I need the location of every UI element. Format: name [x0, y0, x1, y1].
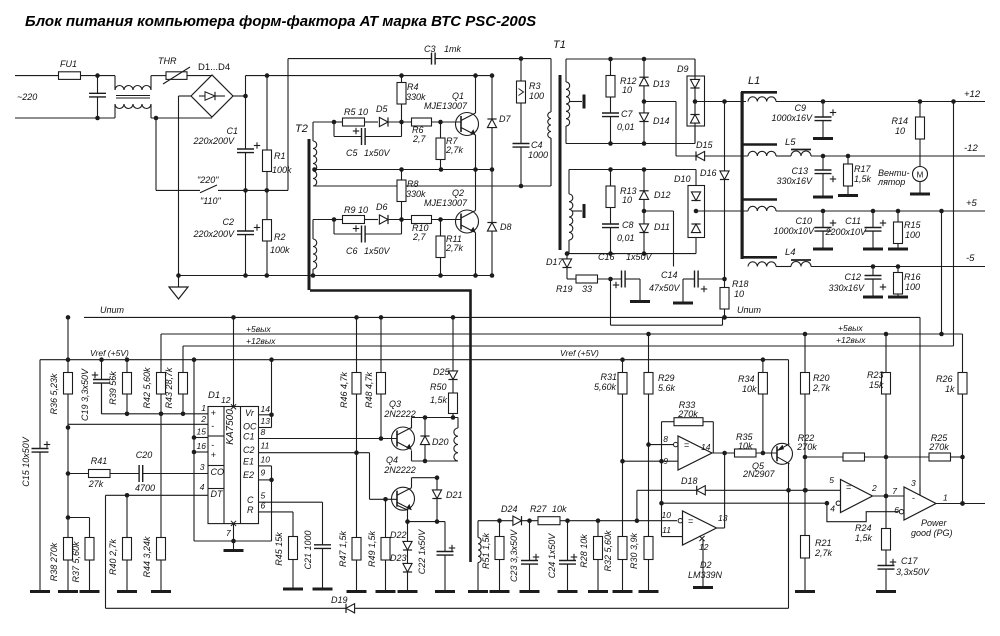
svg-text:D24: D24 [501, 504, 518, 514]
svg-text:R3: R3 [529, 81, 541, 91]
svg-text:1mk: 1mk [444, 44, 462, 54]
svg-text:C24 1x50V: C24 1x50V [547, 533, 557, 579]
svg-text:Vref (+5V): Vref (+5V) [560, 348, 599, 358]
svg-text:D2: D2 [700, 560, 712, 570]
svg-text:Vref (+5V): Vref (+5V) [90, 348, 129, 358]
svg-text:1k: 1k [945, 384, 955, 394]
svg-text:C1: C1 [243, 432, 255, 442]
svg-text:2,7k: 2,7k [445, 145, 464, 155]
svg-text:4: 4 [200, 482, 205, 492]
svg-text:330x16V: 330x16V [828, 283, 865, 293]
svg-text:6: 6 [894, 505, 899, 515]
svg-text:D19: D19 [331, 595, 348, 605]
svg-text:2: 2 [200, 414, 206, 424]
svg-text:LM339N: LM339N [688, 570, 723, 580]
svg-text:R38 270k: R38 270k [49, 542, 59, 581]
svg-text:L5: L5 [785, 137, 796, 148]
svg-text:L4: L4 [785, 247, 796, 258]
svg-text:14: 14 [261, 404, 271, 414]
svg-text:C14: C14 [661, 270, 678, 280]
svg-text:2,7k: 2,7k [812, 383, 831, 393]
svg-text:C6: C6 [346, 246, 358, 256]
svg-text:0,01: 0,01 [617, 233, 635, 243]
svg-text:1,5k: 1,5k [430, 395, 448, 405]
svg-text:10: 10 [662, 510, 672, 520]
svg-text:~220: ~220 [17, 92, 37, 102]
svg-text:Q2: Q2 [452, 188, 464, 198]
svg-text:15: 15 [197, 427, 207, 437]
svg-text:+12: +12 [964, 89, 981, 100]
svg-text:2,7: 2,7 [412, 232, 427, 242]
svg-text:1x50V: 1x50V [626, 252, 653, 262]
svg-text:D21: D21 [446, 490, 463, 500]
svg-text:D11: D11 [654, 222, 670, 232]
svg-text:8: 8 [663, 434, 668, 444]
svg-text:Power: Power [921, 518, 948, 528]
svg-text:=: = [846, 482, 851, 492]
svg-text:R43 28,7k: R43 28,7k [164, 367, 174, 409]
svg-text:C3: C3 [424, 44, 436, 54]
svg-text:D22: D22 [390, 530, 407, 540]
svg-text:C11: C11 [845, 216, 861, 226]
svg-text:100k: 100k [270, 245, 290, 255]
svg-text:C22 1x50V: C22 1x50V [417, 529, 427, 575]
svg-text:270k: 270k [928, 442, 949, 452]
svg-text:5: 5 [829, 475, 834, 485]
svg-text:1000x16V: 1000x16V [771, 113, 813, 123]
svg-text:Блок питания компьютера форм-ф: Блок питания компьютера форм-фактора АТ … [25, 13, 536, 30]
svg-text:R31: R31 [600, 372, 617, 382]
svg-text:лятор: лятор [877, 177, 905, 187]
svg-text:2N2907: 2N2907 [742, 469, 776, 479]
svg-text:R44 3,24k: R44 3,24k [142, 536, 152, 578]
svg-text:R48 4,7k: R48 4,7k [364, 371, 374, 408]
svg-text:10: 10 [734, 289, 744, 299]
svg-text:8: 8 [261, 427, 266, 437]
svg-text:"110": "110" [200, 196, 222, 206]
svg-text:4: 4 [830, 504, 835, 514]
svg-text:33: 33 [582, 284, 592, 294]
svg-text:D7: D7 [499, 114, 511, 124]
svg-text:1x50V: 1x50V [364, 148, 391, 158]
svg-text:1,5k: 1,5k [854, 174, 872, 184]
svg-text:47x50V: 47x50V [649, 283, 681, 293]
svg-text:27k: 27k [88, 479, 104, 489]
svg-text:R45 15k: R45 15k [274, 532, 284, 566]
svg-text:DT: DT [211, 489, 224, 499]
svg-text:R46 4,7k: R46 4,7k [339, 371, 349, 408]
svg-text:R8: R8 [407, 179, 419, 189]
svg-text:5,60k: 5,60k [594, 382, 617, 392]
svg-text:330k: 330k [406, 189, 426, 199]
svg-text:100: 100 [905, 282, 920, 292]
svg-text:C20: C20 [136, 450, 153, 460]
svg-text:R: R [247, 505, 254, 515]
svg-text:+12вых: +12вых [836, 335, 866, 345]
svg-text:D5: D5 [376, 104, 388, 114]
svg-text:2N2222: 2N2222 [383, 409, 416, 419]
svg-text:R47 1,5k: R47 1,5k [338, 530, 348, 567]
svg-text:2,7k: 2,7k [445, 243, 464, 253]
svg-text:9: 9 [261, 468, 266, 478]
svg-text:R15: R15 [904, 220, 922, 230]
svg-text:5.6k: 5.6k [658, 383, 676, 393]
svg-text:C15 10x50V: C15 10x50V [21, 436, 31, 487]
svg-text:10k: 10k [738, 441, 753, 451]
svg-text:R41: R41 [91, 456, 108, 466]
svg-text:100: 100 [905, 230, 920, 240]
svg-text:1000: 1000 [528, 150, 548, 160]
svg-text:100k: 100k [272, 165, 292, 175]
svg-text:+: + [211, 450, 216, 460]
svg-text:R49 1,5k: R49 1,5k [367, 530, 377, 567]
svg-text:R21: R21 [815, 538, 832, 548]
svg-text:Q4: Q4 [386, 455, 398, 465]
svg-text:C5: C5 [346, 148, 358, 158]
svg-text:Vr: Vr [245, 408, 255, 418]
svg-text:R42 5,60k: R42 5,60k [142, 367, 152, 409]
svg-text:+5вых: +5вых [246, 324, 271, 334]
svg-text:R51 1,5k: R51 1,5k [481, 532, 491, 569]
svg-text:-12: -12 [964, 143, 978, 154]
svg-text:R14: R14 [891, 116, 908, 126]
svg-text:11: 11 [662, 525, 671, 535]
svg-text:D8: D8 [500, 222, 512, 232]
svg-text:330x16V: 330x16V [776, 176, 813, 186]
svg-text:330k: 330k [406, 92, 426, 102]
svg-text:D9: D9 [677, 64, 689, 74]
svg-text:1: 1 [201, 403, 206, 413]
svg-text:E1: E1 [243, 457, 254, 467]
svg-text:R23: R23 [867, 370, 884, 380]
svg-text:D10: D10 [674, 174, 691, 184]
svg-text:C16: C16 [598, 252, 615, 262]
svg-text:1: 1 [943, 493, 948, 503]
svg-text:=: = [684, 440, 689, 450]
svg-text:270k: 270k [796, 442, 817, 452]
svg-text:12: 12 [221, 395, 231, 405]
svg-text:D6: D6 [376, 202, 388, 212]
svg-text:220x200V: 220x200V [192, 136, 235, 146]
svg-text:5: 5 [261, 491, 266, 501]
svg-text:2200x10V: 2200x10V [824, 227, 867, 237]
svg-text:good (PG): good (PG) [911, 528, 953, 538]
svg-text:D25: D25 [433, 367, 451, 377]
svg-text:R50: R50 [430, 382, 447, 392]
svg-text:E2: E2 [243, 470, 254, 480]
svg-text:D13: D13 [653, 79, 670, 89]
svg-text:11: 11 [261, 441, 270, 451]
svg-text:12: 12 [699, 542, 709, 552]
svg-text:10k: 10k [742, 384, 757, 394]
svg-text:1x50V: 1x50V [364, 246, 391, 256]
svg-text:R29: R29 [658, 373, 675, 383]
svg-text:T2: T2 [295, 123, 308, 135]
svg-text:-: - [912, 493, 915, 503]
svg-text:D18: D18 [681, 476, 698, 486]
svg-text:D17: D17 [546, 257, 564, 267]
svg-text:C21 1000: C21 1000 [303, 530, 313, 569]
svg-text:13: 13 [718, 513, 728, 523]
svg-text:R2: R2 [274, 232, 286, 242]
svg-text:-: - [211, 440, 214, 450]
svg-text:10k: 10k [552, 504, 567, 514]
svg-text:+: + [211, 408, 216, 418]
svg-text:D14: D14 [653, 116, 670, 126]
svg-text:15k: 15k [869, 380, 884, 390]
svg-text:R32 5,60k: R32 5,60k [603, 530, 613, 572]
svg-text:C7: C7 [621, 109, 633, 119]
svg-text:R20: R20 [813, 373, 830, 383]
svg-text:C1: C1 [226, 126, 238, 136]
svg-text:2: 2 [871, 483, 877, 493]
svg-text:THR: THR [158, 56, 177, 66]
svg-text:R26: R26 [936, 374, 953, 384]
svg-text:270k: 270k [677, 409, 698, 419]
svg-text:220x200V: 220x200V [192, 229, 235, 239]
svg-text:MJE13007: MJE13007 [424, 101, 468, 111]
svg-text:C10: C10 [795, 216, 812, 226]
svg-text:C: C [247, 495, 254, 505]
svg-text:Uпит: Uпит [100, 305, 124, 315]
svg-text:R24: R24 [855, 523, 872, 533]
svg-text:Q1: Q1 [452, 91, 464, 101]
svg-text:C19 3,3x50V: C19 3,3x50V [80, 368, 90, 421]
svg-text:1,5k: 1,5k [855, 533, 873, 543]
svg-text:R16: R16 [904, 272, 921, 282]
svg-text:9: 9 [663, 456, 668, 466]
svg-text:R34: R34 [738, 374, 755, 384]
svg-text:Q3: Q3 [389, 399, 401, 409]
svg-text:-5: -5 [966, 253, 975, 264]
svg-text:4700: 4700 [135, 483, 155, 493]
svg-text:3: 3 [200, 462, 205, 472]
svg-text:D23: D23 [390, 553, 407, 563]
svg-text:+5: +5 [966, 198, 978, 209]
svg-text:"220": "220" [197, 175, 219, 185]
svg-text:L1: L1 [748, 75, 760, 87]
svg-text:R1: R1 [274, 151, 286, 161]
svg-text:D1: D1 [208, 390, 220, 401]
svg-text:10: 10 [622, 195, 632, 205]
svg-text:FU1: FU1 [60, 59, 77, 69]
svg-text:D1...D4: D1...D4 [198, 62, 230, 73]
svg-text:3,3x50V: 3,3x50V [896, 567, 930, 577]
svg-text:R28 10k: R28 10k [579, 534, 589, 568]
svg-text:0,01: 0,01 [617, 122, 635, 132]
svg-text:C17: C17 [901, 556, 919, 566]
svg-text:R39 56k: R39 56k [108, 371, 118, 405]
svg-text:R36 5,23k: R36 5,23k [49, 373, 59, 415]
svg-text:CO: CO [211, 467, 225, 477]
svg-text:C8: C8 [622, 220, 634, 230]
svg-text:C12: C12 [844, 272, 861, 282]
svg-text:10: 10 [622, 85, 632, 95]
svg-text:T1: T1 [553, 39, 566, 51]
svg-text:R27: R27 [530, 504, 548, 514]
svg-text:R17: R17 [854, 164, 872, 174]
svg-text:-: - [211, 421, 214, 431]
svg-text:=: = [688, 516, 693, 526]
svg-text:R5 10: R5 10 [344, 107, 368, 117]
svg-text:OC: OC [243, 422, 257, 432]
svg-text:D15: D15 [696, 140, 714, 150]
svg-text:+12вых: +12вых [246, 336, 276, 346]
svg-text:C9: C9 [794, 103, 806, 113]
svg-text:M: M [917, 171, 924, 180]
svg-text:C2: C2 [243, 445, 255, 455]
svg-text:Uпит: Uпит [737, 305, 761, 315]
svg-text:2,7k: 2,7k [814, 548, 833, 558]
svg-text:R18: R18 [732, 279, 749, 289]
svg-text:7: 7 [226, 528, 231, 538]
svg-text:D16: D16 [700, 168, 717, 178]
svg-text:2N2222: 2N2222 [383, 465, 416, 475]
svg-text:MJE13007: MJE13007 [424, 198, 468, 208]
svg-text:100: 100 [529, 91, 544, 101]
svg-text:R9 10: R9 10 [344, 205, 368, 215]
svg-text:3: 3 [911, 478, 916, 488]
svg-text:10: 10 [261, 455, 271, 465]
svg-text:C2: C2 [222, 217, 234, 227]
svg-text:R30 3,9k: R30 3,9k [629, 532, 639, 569]
svg-text:C13: C13 [791, 166, 808, 176]
svg-text:16: 16 [197, 441, 207, 451]
svg-text:6: 6 [261, 501, 266, 511]
svg-text:KA7500: KA7500 [225, 409, 236, 445]
svg-text:R19: R19 [556, 284, 573, 294]
svg-text:13: 13 [261, 416, 271, 426]
svg-text:C4: C4 [531, 140, 543, 150]
svg-text:+5вых: +5вых [838, 323, 863, 333]
svg-text:D20: D20 [432, 437, 449, 447]
svg-text:R4: R4 [407, 82, 419, 92]
svg-text:2,7: 2,7 [412, 134, 427, 144]
svg-text:10: 10 [895, 126, 905, 136]
svg-text:14: 14 [701, 442, 711, 452]
svg-text:1000x10V: 1000x10V [773, 226, 815, 236]
svg-text:R37 5,60k: R37 5,60k [71, 541, 81, 583]
svg-text:R40 2,7k: R40 2,7k [108, 538, 118, 575]
svg-text:C23 3,3x50V: C23 3,3x50V [509, 529, 519, 582]
svg-text:7: 7 [892, 486, 897, 496]
svg-text:D12: D12 [654, 190, 671, 200]
